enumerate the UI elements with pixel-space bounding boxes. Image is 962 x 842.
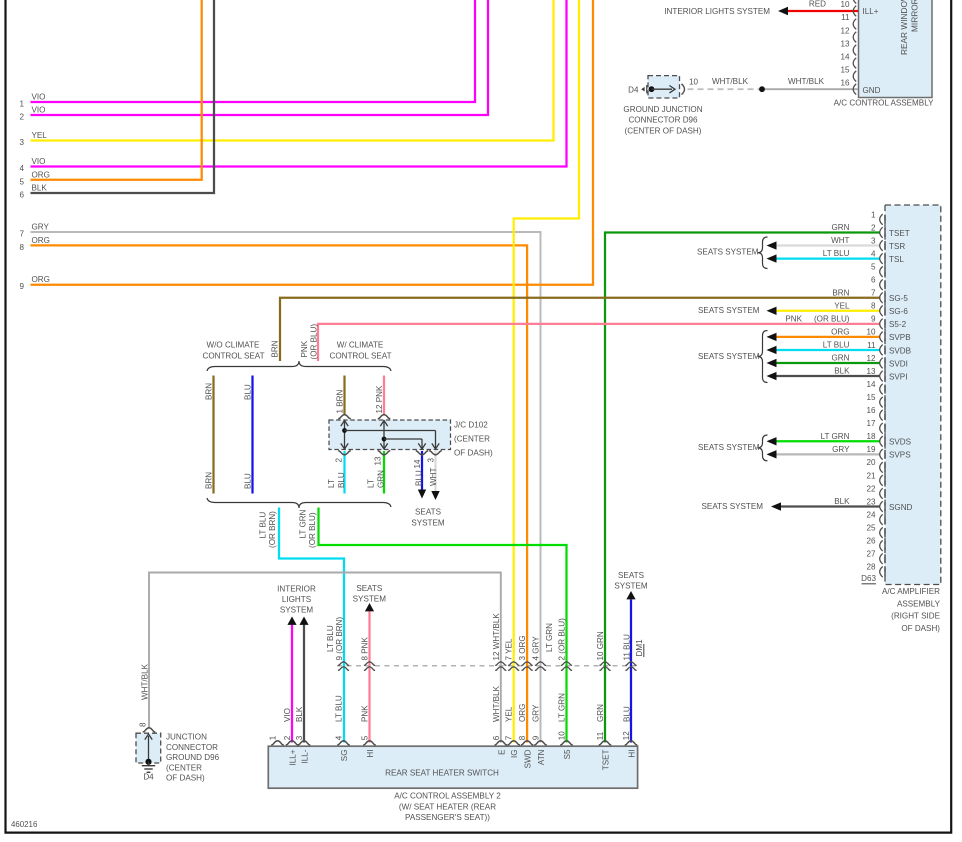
arrowhead seats system (BLU) — [626, 591, 635, 599]
svg-text:J/C D102: J/C D102 — [454, 421, 488, 430]
svg-text:CONNECTOR: CONNECTOR — [166, 743, 218, 752]
svg-text:ORG: ORG — [32, 275, 50, 284]
wire LT BLU to amplifier pin 11 SVDB — [775, 349, 880, 351]
svg-text:WHT/BLK: WHT/BLK — [141, 663, 150, 700]
svg-text:SVPI: SVPI — [889, 372, 907, 381]
svg-text:8: 8 — [871, 302, 876, 311]
pin arcs 9-16 on A/C control assembly — [853, 0, 856, 4]
svg-text:3: 3 — [427, 458, 436, 463]
wire WHT/BLK from junction connector pin 8 to switch pin 6 E — [149, 573, 501, 743]
svg-text:12 WHT/BLK: 12 WHT/BLK — [492, 613, 501, 661]
wire BRN amplifier pin 7 SG-5 to climate-seat split — [280, 298, 880, 361]
svg-text:SG-6: SG-6 — [889, 307, 908, 316]
svg-text:VIO: VIO — [32, 157, 46, 166]
svg-text:LIGHTS: LIGHTS — [282, 595, 312, 604]
svg-text:10 GRN: 10 GRN — [596, 631, 605, 660]
arrowhead seats system (BLK pin 23) — [771, 502, 781, 510]
wire BLK switch pin 3 ILL- to interior lights system — [303, 625, 305, 743]
svg-text:ORG: ORG — [32, 170, 50, 179]
svg-text:SG: SG — [340, 750, 349, 762]
svg-text:SVPB: SVPB — [889, 333, 911, 342]
wire BLU w/o climate control seat (left column) — [251, 376, 253, 494]
svg-text:(CENTER: (CENTER — [454, 435, 490, 444]
svg-text:LT GRN: LT GRN — [821, 432, 850, 441]
arrowhead interior lights system (red wire) — [778, 7, 788, 15]
svg-text:25: 25 — [866, 523, 876, 532]
svg-text:CONNECTOR D96: CONNECTOR D96 — [628, 116, 698, 125]
svg-text:SEATS: SEATS — [356, 584, 383, 593]
connector box: A/C CONTROL ASSEMBLY (top right) — [859, 0, 933, 98]
svg-text:E: E — [497, 749, 506, 755]
svg-text:BLU: BLU — [244, 384, 253, 400]
svg-text:9 (OR BRN): 9 (OR BRN) — [335, 617, 344, 661]
svg-text:YEL: YEL — [32, 131, 48, 140]
svg-text:14: 14 — [413, 459, 422, 469]
svg-text:CONTROL SEAT: CONTROL SEAT — [329, 351, 391, 360]
svg-text:YEL: YEL — [505, 706, 514, 722]
svg-text:ILL+: ILL+ — [289, 749, 298, 765]
wire WHT/BLK solid segment (junction dot to pin 16 GND) — [762, 88, 858, 90]
svg-text:SGND: SGND — [889, 503, 913, 512]
svg-text:ORG: ORG — [32, 236, 50, 245]
svg-text:26: 26 — [866, 537, 876, 546]
svg-text:BRN: BRN — [205, 472, 214, 489]
svg-text:GRN: GRN — [832, 354, 850, 363]
wire PNK switch pin 5 HI to seats system — [368, 612, 370, 743]
pin arcs 2, 13, 14, 3 on J/C D102 bottom — [338, 451, 351, 455]
svg-text:2: 2 — [19, 113, 24, 122]
wire 2 VIO (left edge to top) — [31, 0, 489, 115]
svg-text:2: 2 — [283, 735, 292, 740]
svg-text:13: 13 — [374, 456, 383, 466]
svg-text:SEATS SYSTEM: SEATS SYSTEM — [698, 443, 760, 452]
wire RED pin 10 ILL+ to interior lights system — [788, 10, 858, 12]
connector D4 pin bracket ) (top) — [682, 84, 685, 95]
svg-text:VIO: VIO — [32, 93, 46, 102]
brace seats system pins 10-13 of amplifier — [758, 331, 768, 383]
wire 7 GRY (left edge to switch pin 9 ATN) — [31, 232, 541, 743]
svg-text:LT GRN: LT GRN — [298, 509, 307, 538]
svg-text:BLU: BLU — [622, 706, 631, 722]
arrowhead interior lights system (BLK) — [299, 617, 308, 625]
svg-text:5: 5 — [871, 262, 876, 271]
svg-text:5: 5 — [361, 735, 370, 740]
svg-text:13: 13 — [840, 39, 850, 48]
svg-text:OF DASH): OF DASH) — [166, 774, 205, 783]
svg-text:LT GRN: LT GRN — [558, 693, 567, 722]
svg-text:A/C CONTROL ASSEMBLY 2: A/C CONTROL ASSEMBLY 2 — [394, 792, 501, 801]
svg-text:INTERIOR LIGHTS SYSTEM: INTERIOR LIGHTS SYSTEM — [664, 7, 770, 16]
svg-text:LT BLU: LT BLU — [326, 625, 335, 652]
J/C D102 internal branch to pin 3 — [345, 430, 436, 432]
junction dot on WHT/BLK wire — [759, 86, 765, 92]
wire BLU from J/C D102 pin 14 to seats system — [421, 451, 423, 490]
svg-text:JUNCTION: JUNCTION — [166, 733, 207, 742]
svg-text:10: 10 — [866, 328, 876, 337]
svg-text:SEATS SYSTEM: SEATS SYSTEM — [702, 502, 764, 511]
brace under w/o and w/ climate control seat alternatives (bottom) — [207, 498, 391, 508]
svg-text:3 ORG: 3 ORG — [518, 635, 527, 660]
svg-text:BLK: BLK — [834, 497, 850, 506]
svg-text:3: 3 — [871, 236, 876, 245]
wire 5 ORG (left edge to top) — [31, 0, 202, 180]
pin arcs 1-28 on A/C amplifier assembly — [880, 214, 883, 225]
svg-text:11: 11 — [867, 341, 876, 350]
connector D4 mating half symbol (top) — [641, 87, 644, 92]
svg-text:SYSTEM: SYSTEM — [280, 605, 314, 614]
wire BLU switch pin 12 HI to seats system — [630, 600, 632, 743]
wire 1 VIO (left edge to top) — [31, 0, 476, 102]
wire LT GRN to amplifier pin 18 SVDS — [775, 440, 880, 442]
svg-text:ILL-: ILL- — [301, 749, 310, 763]
svg-text:GRY: GRY — [32, 223, 50, 232]
svg-text:PNK: PNK — [785, 314, 802, 323]
arrowhead interior lights system (VIO) — [287, 617, 296, 625]
svg-text:A/C CONTROL ASSEMBLY: A/C CONTROL ASSEMBLY — [834, 98, 934, 107]
svg-text:1 BRN: 1 BRN — [336, 390, 345, 414]
svg-text:11 BLU: 11 BLU — [622, 634, 631, 661]
svg-text:4: 4 — [335, 735, 344, 740]
svg-text:WHT: WHT — [831, 236, 849, 245]
inline connector DM1 dashed line — [337, 665, 637, 667]
svg-text:GROUND D96: GROUND D96 — [166, 753, 220, 762]
wire WHT from J/C D102 pin 3 to seats system — [434, 451, 436, 492]
svg-text:8: 8 — [518, 735, 527, 740]
svg-text:SEATS: SEATS — [618, 571, 645, 580]
svg-text:23: 23 — [866, 497, 876, 506]
svg-text:9: 9 — [19, 282, 24, 291]
svg-text:3: 3 — [19, 138, 24, 147]
svg-text:ORG: ORG — [831, 328, 849, 337]
arrowhead seats system (BLK pin 13) — [767, 372, 777, 380]
arrowhead seats system (LT GRN pin 18) — [767, 437, 777, 445]
svg-text:HI: HI — [628, 750, 637, 758]
svg-text:SEATS SYSTEM: SEATS SYSTEM — [697, 247, 759, 256]
svg-text:W/ CLIMATE: W/ CLIMATE — [337, 341, 384, 350]
ground symbol D4 (bottom left) — [148, 762, 150, 766]
svg-text:7 YEL: 7 YEL — [505, 638, 514, 660]
J/C D102 internal bus pin 12 to pin 13 with arrows — [383, 421, 385, 450]
wire 6 BLK (left edge to top) — [31, 0, 215, 193]
svg-text:HI: HI — [366, 750, 375, 758]
svg-text:W/O CLIMATE: W/O CLIMATE — [207, 341, 261, 350]
arrowhead seats system (GRY pin 19) — [767, 450, 777, 458]
connector box: REAR SEAT HEATER SWITCH / A/C CONTROL ASSEMBLY 2 — [268, 746, 637, 788]
wire BRN w/o climate control seat (left column) — [212, 376, 214, 494]
svg-text:S5: S5 — [563, 749, 572, 759]
svg-text:CONTROL SEAT: CONTROL SEAT — [202, 351, 264, 360]
svg-text:WHT: WHT — [429, 468, 438, 486]
arrowhead seats system (LT BLU pin 4) — [767, 254, 777, 262]
brace over w/o and w/ climate control seat alternatives (top) — [207, 361, 391, 371]
brace seats system pins 3-4 of amplifier — [758, 237, 768, 269]
svg-text:10: 10 — [689, 78, 699, 87]
svg-text:GRN: GRN — [596, 704, 605, 722]
svg-text:SEATS SYSTEM: SEATS SYSTEM — [698, 306, 760, 315]
svg-text:BRN: BRN — [205, 383, 214, 400]
arrowhead seats system (GRN pin 12) — [767, 359, 777, 367]
wire WHT/BLK dashed segment (D96 to junction dot) — [688, 88, 763, 90]
wire LT BLU (OR BRN) below split to switch pin 4 SG — [279, 508, 344, 743]
wire GRN switch pin 11 TSET to amplifier pin 2 — [605, 233, 880, 743]
svg-text:18: 18 — [866, 432, 876, 441]
svg-text:24: 24 — [866, 510, 876, 519]
wire WHT to amplifier pin 3 TSR — [775, 244, 880, 246]
svg-text:SEATS SYSTEM: SEATS SYSTEM — [698, 352, 760, 361]
wire GRN to amplifier pin 12 SVDI — [775, 362, 880, 364]
connector box: A/C AMPLIFIER ASSEMBLY (right, dashed) — [885, 205, 941, 585]
svg-text:7: 7 — [871, 289, 876, 298]
svg-text:GRN: GRN — [377, 470, 386, 488]
arrowhead seats system (LT BLU pin 11) — [767, 346, 777, 354]
svg-text:11: 11 — [841, 13, 850, 22]
svg-text:6: 6 — [19, 191, 24, 200]
svg-text:(OR BLU): (OR BLU) — [308, 512, 317, 548]
svg-text:10: 10 — [558, 731, 567, 741]
svg-text:ATN: ATN — [537, 749, 546, 765]
svg-text:7: 7 — [19, 230, 24, 239]
svg-text:2 (OR BLU): 2 (OR BLU) — [558, 618, 567, 661]
svg-text:20: 20 — [866, 458, 876, 467]
svg-text:TSL: TSL — [889, 255, 904, 264]
svg-text:SYSTEM: SYSTEM — [411, 519, 445, 528]
pin arcs 1-12 on rear seat heater switch — [271, 741, 284, 745]
svg-text:LT: LT — [367, 479, 376, 488]
svg-text:10: 10 — [840, 0, 850, 9]
svg-text:VIO: VIO — [283, 708, 292, 722]
svg-text:OF DASH): OF DASH) — [901, 624, 940, 633]
svg-text:ILL+: ILL+ — [863, 7, 879, 16]
svg-text:LT BLU: LT BLU — [823, 249, 850, 258]
wire BLK to amplifier pin 13 SVPI — [775, 375, 880, 377]
svg-text:GRN: GRN — [832, 223, 850, 232]
arrowhead seats system (ORG pin 10) — [767, 333, 777, 341]
svg-text:1: 1 — [269, 735, 278, 740]
svg-text:27: 27 — [866, 550, 876, 559]
svg-text:15: 15 — [866, 393, 876, 402]
wire PNK w/ climate control seat to J/C D102 pin 12 — [383, 376, 385, 415]
svg-text:BRN: BRN — [832, 288, 849, 297]
svg-text:9: 9 — [871, 315, 876, 324]
svg-text:BLU: BLU — [337, 472, 346, 488]
svg-text:1: 1 — [871, 210, 876, 219]
svg-text:DM1: DM1 — [635, 639, 644, 657]
svg-text:TSR: TSR — [889, 242, 905, 251]
wire VIO switch pin 2 ILL+ to interior lights system — [291, 625, 293, 743]
wire 4 VIO (left edge to top) — [31, 0, 567, 167]
svg-text:PNK: PNK — [300, 340, 309, 357]
svg-text:RED: RED — [809, 0, 826, 8]
wire PNK (OR BLU) amplifier pin 9 S5-2 to climate-seat split — [318, 324, 880, 361]
svg-text:(RIGHT SIDE: (RIGHT SIDE — [891, 612, 940, 621]
svg-text:SVDB: SVDB — [889, 346, 911, 355]
svg-text:INTERIOR: INTERIOR — [277, 585, 316, 594]
svg-text:YEL: YEL — [834, 301, 850, 310]
svg-text:8 PNK: 8 PNK — [361, 637, 370, 661]
svg-text:4: 4 — [871, 249, 876, 258]
arrowhead seats system (YEL pin 8) — [767, 307, 777, 315]
svg-text:TSET: TSET — [602, 749, 611, 770]
junction connector box J/C D102 (center of dash) — [329, 420, 451, 450]
svg-text:PNK: PNK — [361, 705, 370, 722]
svg-text:SVDI: SVDI — [889, 359, 908, 368]
svg-text:460216: 460216 — [11, 820, 38, 829]
svg-text:(OR BLU): (OR BLU) — [814, 314, 850, 323]
ground junction connector D96 terminal dot (top) — [649, 86, 655, 92]
svg-text:TSET: TSET — [889, 229, 910, 238]
svg-text:4 GRY: 4 GRY — [532, 636, 541, 661]
svg-text:LT BLU: LT BLU — [335, 695, 344, 722]
wire LT BLU to amplifier pin 4 TSL — [775, 257, 880, 259]
wire BLK to amplifier pin 23 SGND — [780, 505, 880, 507]
svg-text:16: 16 — [866, 406, 876, 415]
svg-text:6: 6 — [871, 276, 876, 285]
svg-text:(CENTER OF DASH): (CENTER OF DASH) — [625, 126, 702, 135]
svg-text:21: 21 — [866, 471, 876, 480]
svg-text:(OR BLU): (OR BLU) — [310, 324, 319, 360]
svg-text:9: 9 — [532, 735, 541, 740]
svg-text:GROUND JUNCTION: GROUND JUNCTION — [623, 105, 702, 114]
svg-text:WHT/BLK: WHT/BLK — [788, 77, 825, 86]
svg-text:D4: D4 — [628, 85, 639, 94]
svg-text:12: 12 — [622, 731, 631, 741]
svg-text:A/C AMPLIFIER: A/C AMPLIFIER — [882, 587, 940, 596]
svg-text:(OR BRN): (OR BRN) — [268, 511, 277, 548]
wire 9 ORG (left edge to top) — [31, 0, 594, 285]
svg-text:8: 8 — [139, 722, 148, 727]
svg-text:SYSTEM: SYSTEM — [353, 595, 387, 604]
arrowhead seats system (BLU from J/C) — [418, 490, 426, 499]
svg-text:22: 22 — [866, 484, 876, 493]
svg-text:14: 14 — [840, 52, 850, 61]
svg-text:LT: LT — [327, 479, 336, 488]
svg-text:2: 2 — [871, 223, 876, 232]
wire YEL from top to switch pin 7 IG — [514, 0, 579, 743]
svg-text:VIO: VIO — [32, 106, 46, 115]
svg-text:1: 1 — [19, 100, 24, 109]
junction connector ground internal arrow (bottom left) — [148, 736, 150, 762]
wire 8 ORG (left edge to switch pin 8 SWD) — [31, 245, 528, 742]
svg-text:SG-5: SG-5 — [889, 294, 908, 303]
svg-text:BLU: BLU — [244, 473, 253, 489]
svg-text:GRY: GRY — [532, 704, 541, 722]
svg-text:OF DASH): OF DASH) — [454, 449, 493, 458]
svg-text:IG: IG — [510, 750, 519, 759]
arrowhead seats system (WHT pin 3) — [767, 241, 777, 249]
svg-text:4: 4 — [19, 164, 24, 173]
svg-text:ORG: ORG — [518, 704, 527, 722]
svg-text:SVDS: SVDS — [889, 438, 912, 447]
junction connector ground terminal dot (bottom left) — [145, 759, 151, 765]
wire BRN w/ climate control seat to J/C D102 pin 1 — [343, 376, 345, 415]
arrowhead seats system (PNK) — [365, 603, 374, 611]
svg-text:REAR SEAT HEATER SWITCH: REAR SEAT HEATER SWITCH — [385, 768, 499, 777]
pin 8 bracket arc at junction connector ground — [143, 728, 156, 732]
J/C D102 internal bus pin 1 to pin 2 with arrows — [344, 421, 346, 450]
wire 3 YEL (left edge to top) — [31, 0, 554, 141]
svg-text:D63: D63 — [861, 574, 876, 583]
svg-text:GRY: GRY — [832, 445, 850, 454]
svg-text:BLU: BLU — [415, 470, 424, 486]
wire LT BLU from J/C D102 pin 2 — [343, 451, 345, 494]
svg-text:BRN: BRN — [271, 340, 280, 357]
svg-text:15: 15 — [840, 65, 850, 74]
svg-text:LT BLU: LT BLU — [258, 512, 267, 539]
svg-text:14: 14 — [866, 380, 876, 389]
svg-text:WHT/BLK: WHT/BLK — [492, 685, 501, 722]
junction connector ground D96 box (bottom left, at D4) — [136, 733, 161, 763]
svg-text:BLK: BLK — [295, 706, 304, 722]
svg-text:12 PNK: 12 PNK — [375, 385, 384, 413]
pin arcs 1 and 12 on J/C D102 top — [338, 415, 351, 419]
svg-text:(CENTER: (CENTER — [166, 763, 202, 772]
svg-text:SYSTEM: SYSTEM — [614, 581, 648, 590]
brace seats system pins 18-19 of amplifier — [758, 435, 768, 461]
svg-text:LT BLU: LT BLU — [823, 341, 850, 350]
ground junction connector D96 box (top, at D4) — [648, 76, 680, 98]
inline connector DM1 arc pairs at each wire — [338, 662, 349, 671]
svg-text:WHT/BLK: WHT/BLK — [712, 77, 749, 86]
svg-text:2: 2 — [335, 458, 344, 463]
svg-text:GND: GND — [863, 86, 881, 95]
svg-text:12: 12 — [840, 26, 850, 35]
svg-text:12: 12 — [866, 354, 876, 363]
svg-text:3: 3 — [295, 735, 304, 740]
svg-text:BLK: BLK — [834, 367, 850, 376]
svg-text:(W/ SEAT HEATER (REAR: (W/ SEAT HEATER (REAR — [399, 802, 496, 811]
arrowhead seats system (WHT from J/C) — [431, 491, 439, 500]
svg-text:19: 19 — [866, 445, 876, 454]
svg-text:REAR WINDOW: REAR WINDOW — [899, 0, 909, 55]
svg-text:17: 17 — [866, 419, 876, 428]
svg-text:MIRROR: MIRROR — [910, 0, 920, 32]
svg-text:13: 13 — [866, 367, 876, 376]
svg-text:SWD: SWD — [524, 749, 533, 768]
svg-text:8: 8 — [19, 243, 24, 252]
J/C D102 internal branch to pin 14 — [384, 438, 422, 440]
svg-text:6: 6 — [492, 735, 501, 740]
wire GRY to amplifier pin 19 SVPS — [775, 453, 880, 455]
wire YEL to amplifier pin 8 SG-6 — [775, 310, 880, 312]
svg-text:SEATS: SEATS — [415, 508, 442, 517]
svg-text:D4: D4 — [143, 773, 154, 782]
svg-text:BLK: BLK — [32, 184, 48, 193]
wire ORG to amplifier pin 10 SVPB — [775, 336, 880, 338]
wire LT GRN (OR BLU) below split to switch pin 10 S5 — [319, 508, 567, 743]
wire LT GRN from J/C D102 pin 13 — [383, 451, 385, 494]
svg-text:PASSENGER'S SEAT)): PASSENGER'S SEAT)) — [405, 813, 490, 822]
ground junction connector D96 internal arrow (top) — [652, 88, 673, 90]
svg-text:11: 11 — [596, 731, 605, 740]
svg-text:SVPS: SVPS — [889, 451, 911, 460]
svg-text:7: 7 — [505, 735, 514, 740]
svg-text:16: 16 — [840, 78, 850, 87]
J/C D102 junction dot node B — [382, 437, 387, 442]
svg-text:5: 5 — [19, 177, 24, 186]
svg-text:28: 28 — [866, 563, 876, 572]
svg-text:S5-2: S5-2 — [889, 320, 907, 329]
J/C D102 junction dot node A — [342, 428, 347, 433]
svg-text:ASSEMBLY: ASSEMBLY — [897, 599, 941, 608]
svg-text:LT GRN: LT GRN — [545, 623, 554, 652]
